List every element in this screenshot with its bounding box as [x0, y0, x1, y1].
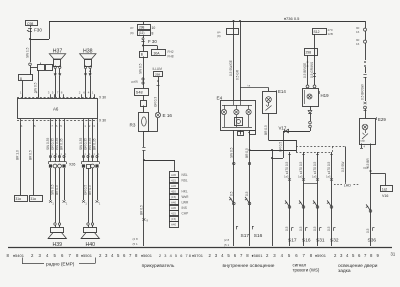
svg-text:8: 8	[7, 253, 10, 258]
svg-text:E4: E4	[217, 96, 223, 101]
svg-text:WS 0.35: WS 0.35	[88, 138, 92, 150]
svg-text:1: 1	[20, 91, 22, 95]
svg-text:0.5 SW/GE: 0.5 SW/GE	[229, 60, 233, 76]
svg-text:BR 1.0: BR 1.0	[16, 150, 20, 160]
svg-text:♦470 0.5: ♦470 0.5	[285, 162, 289, 174]
svg-text:8: 8	[246, 253, 249, 258]
svg-text:(15): (15)	[171, 217, 176, 221]
svg-text:2: 2	[99, 253, 102, 258]
svg-text:1: 1	[99, 202, 101, 206]
svg-text:шф: шф	[361, 139, 366, 143]
svg-text:1a5: 1a5	[284, 175, 289, 179]
svg-text:0.5 GR: 0.5 GR	[236, 69, 240, 80]
svg-text:5: 5	[227, 253, 230, 258]
svg-text:6: 6	[56, 124, 58, 128]
svg-text:4: 4	[346, 253, 349, 258]
svg-text:2: 2	[266, 253, 269, 258]
svg-text:SW 0.35: SW 0.35	[46, 138, 50, 150]
svg-text:1: 1	[89, 152, 91, 156]
svg-text:3: 3	[164, 254, 166, 258]
svg-text:SW 0.5: SW 0.5	[51, 184, 55, 195]
svg-text:S17: S17	[288, 238, 297, 244]
svg-text:♦470 0.5: ♦470 0.5	[299, 162, 303, 174]
svg-text:GR 0.3: GR 0.3	[154, 97, 158, 107]
svg-text:(2 8: (2 8	[224, 238, 230, 242]
svg-text:2: 2	[31, 253, 34, 258]
svg-text:BR 0.5: BR 0.5	[55, 185, 59, 195]
svg-text:BR 0.35: BR 0.35	[93, 138, 97, 150]
svg-text:◄: ◄	[26, 29, 29, 33]
svg-text:(9): (9)	[217, 34, 221, 38]
svg-text:6: 6	[234, 253, 237, 258]
svg-text:0.5: 0.5	[313, 226, 317, 231]
svg-text:7: 7	[303, 253, 306, 258]
svg-text:V17: V17	[279, 126, 287, 131]
svg-text:CHP: CHP	[182, 212, 189, 216]
svg-text:(2 8: (2 8	[133, 237, 139, 241]
svg-text:LWR: LWR	[182, 201, 190, 205]
svg-text:31a: 31a	[16, 197, 22, 201]
svg-text:♦470 0.5: ♦470 0.5	[327, 162, 331, 174]
svg-text:2: 2	[79, 91, 81, 95]
svg-text:8: 8	[34, 124, 36, 128]
svg-text:6: 6	[295, 253, 298, 258]
svg-text:30A: 30A	[154, 51, 161, 55]
svg-text:SW 1.5: SW 1.5	[26, 47, 30, 58]
svg-text:♦736 0.5: ♦736 0.5	[284, 16, 300, 21]
svg-text:8: 8	[147, 219, 149, 223]
svg-text:415: 415	[171, 178, 176, 182]
svg-text:♦5401: ♦5401	[13, 253, 25, 258]
svg-text:16: 16	[356, 30, 360, 34]
svg-text:до: до	[130, 26, 134, 30]
svg-text:8: 8	[152, 31, 154, 35]
svg-text:4: 4	[364, 145, 366, 149]
svg-text:(5 1: (5 1	[224, 243, 230, 247]
svg-text:♦5901: ♦5901	[315, 253, 327, 258]
svg-text:V16: V16	[382, 194, 388, 198]
svg-text:3: 3	[215, 253, 218, 258]
svg-text:7: 7	[57, 91, 59, 95]
svg-text:♦5801: ♦5801	[252, 253, 264, 258]
svg-text:(11): (11)	[139, 31, 144, 35]
svg-text:31: 31	[391, 252, 396, 257]
svg-text:2: 2	[209, 253, 212, 258]
svg-text:1: 1	[66, 202, 68, 206]
svg-text:6: 6	[83, 91, 85, 95]
svg-text:1: 1	[65, 152, 67, 156]
svg-text:A40: A40	[171, 200, 177, 204]
svg-text:2: 2	[334, 253, 337, 258]
svg-text:5: 5	[352, 253, 355, 258]
svg-text:A6: A6	[53, 107, 59, 112]
svg-text:3: 3	[105, 253, 108, 258]
svg-text:X26: X26	[69, 163, 75, 167]
svg-text:0.5 BR/GE: 0.5 BR/GE	[303, 63, 307, 78]
svg-text:♦5701: ♦5701	[192, 253, 204, 258]
svg-text:(15): (15)	[171, 195, 176, 199]
svg-text:S17: S17	[241, 233, 250, 239]
svg-text:GR 0.5: GR 0.5	[279, 142, 283, 152]
svg-text:0.5: 0.5	[229, 191, 233, 196]
svg-text:450: 450	[171, 189, 176, 193]
svg-text:0.5: 0.5	[299, 226, 303, 231]
svg-text:тревоги (WS): тревоги (WS)	[293, 267, 320, 272]
svg-text:4: 4	[170, 254, 172, 258]
svg-text:5: 5	[54, 253, 57, 258]
svg-text:5: 5	[175, 254, 177, 258]
svg-text:INS: INS	[182, 206, 187, 210]
svg-text:7: 7	[129, 253, 132, 258]
svg-text:S31: S31	[316, 238, 325, 244]
svg-text:8: 8	[310, 253, 313, 258]
svg-text:C98: C98	[27, 22, 33, 26]
svg-text:1: 1	[85, 202, 87, 206]
svg-text:A30: A30	[171, 173, 177, 177]
svg-text:задка: задка	[338, 269, 351, 274]
svg-text:GR 0.5: GR 0.5	[84, 185, 88, 195]
svg-text:12B: 12B	[328, 32, 333, 36]
svg-text:V18: V18	[363, 166, 369, 170]
svg-text:0.5: 0.5	[245, 191, 249, 196]
svg-text:SW 0.5: SW 0.5	[139, 63, 143, 74]
svg-text:7: 7	[364, 253, 367, 258]
svg-text:1: 1	[84, 152, 86, 156]
svg-text:S12: S12	[314, 30, 320, 34]
svg-text:8: 8	[20, 77, 22, 81]
svg-text:A40: A40	[171, 222, 177, 226]
svg-text:радио (ЕМР): радио (ЕМР)	[46, 261, 75, 267]
svg-text:♦470 0.5: ♦470 0.5	[313, 162, 317, 174]
svg-text:E 16: E 16	[163, 113, 173, 118]
svg-text:7: 7	[69, 253, 72, 258]
svg-text:S36: S36	[368, 238, 377, 244]
svg-text:X 30: X 30	[99, 96, 106, 100]
svg-text:прикуриватель: прикуриватель	[142, 264, 175, 269]
svg-text:E29: E29	[378, 117, 386, 122]
svg-text:298: 298	[306, 51, 312, 55]
svg-text:ILLUM: ILLUM	[153, 67, 163, 71]
svg-text:♦5501: ♦5501	[81, 253, 93, 258]
svg-text:31a: 31a	[31, 197, 37, 201]
svg-text:5: 5	[60, 124, 62, 128]
svg-text:6: 6	[180, 254, 182, 258]
svg-text:5: 5	[288, 253, 291, 258]
svg-text:(9): (9)	[130, 31, 134, 35]
svg-text:E14: E14	[278, 89, 286, 94]
svg-text:S16: S16	[302, 238, 311, 244]
svg-text:0.5 SW: 0.5 SW	[341, 162, 345, 172]
svg-text:4: 4	[281, 253, 284, 258]
svg-text:F 30: F 30	[148, 39, 157, 44]
svg-text:3: 3	[93, 124, 95, 128]
svg-text:WsR: WsR	[182, 195, 190, 199]
svg-text:внутреннее освещение: внутреннее освещение	[223, 264, 275, 269]
svg-text:4: 4	[111, 253, 114, 258]
svg-text:H19: H19	[321, 93, 330, 98]
svg-text:(5 1: (5 1	[133, 242, 139, 246]
svg-text:0.5: 0.5	[366, 228, 370, 233]
svg-text:3: 3	[273, 253, 276, 258]
svg-text:1: 1	[84, 124, 86, 128]
svg-text:3: 3	[48, 91, 50, 95]
svg-text:LHD: LHD	[344, 184, 352, 188]
svg-text:8: 8	[189, 254, 191, 258]
svg-text:S48: S48	[136, 91, 143, 95]
svg-text:BR 0.5: BR 0.5	[140, 205, 144, 215]
svg-text:SW 0.5: SW 0.5	[229, 147, 233, 158]
svg-text:1a5: 1a5	[312, 175, 317, 179]
svg-text:R3: R3	[130, 123, 136, 128]
svg-text:415: 415	[171, 211, 176, 215]
svg-text:WS 0.35: WS 0.35	[55, 138, 59, 150]
svg-text:X 30: X 30	[99, 119, 106, 123]
svg-text:1a5: 1a5	[298, 175, 303, 179]
svg-text:3: 3	[340, 253, 343, 258]
svg-text:9: 9	[377, 253, 380, 258]
svg-text:1: 1	[60, 152, 62, 156]
svg-text:7: 7	[51, 124, 53, 128]
svg-text:4: 4	[88, 91, 90, 95]
svg-text:♦5601: ♦5601	[141, 253, 153, 258]
svg-text:BR 0.5: BR 0.5	[245, 148, 249, 158]
svg-text:BR 0.5: BR 0.5	[264, 125, 268, 135]
svg-text:GR 0.35: GR 0.35	[51, 138, 55, 150]
svg-text:6: 6	[61, 253, 64, 258]
svg-text:NSL: NSL	[182, 173, 188, 177]
svg-text:1: 1	[56, 152, 58, 156]
svg-text:↑а: ↑а	[247, 84, 251, 88]
svg-text:5: 5	[52, 91, 54, 95]
svg-text:GR 0.35: GR 0.35	[84, 138, 88, 150]
svg-text:1: 1	[93, 152, 95, 156]
svg-text:2: 2	[159, 254, 161, 258]
svg-text:1a5: 1a5	[326, 175, 331, 179]
svg-text:BR 0.35: BR 0.35	[60, 138, 64, 150]
svg-text:B: B	[141, 52, 143, 56]
svg-text:16: 16	[356, 42, 360, 46]
svg-text:8: 8	[370, 253, 373, 258]
svg-text:1: 1	[52, 202, 54, 206]
svg-text:8: 8	[135, 253, 138, 258]
svg-text:4: 4	[221, 253, 224, 258]
svg-text:6: 6	[123, 253, 126, 258]
svg-text:SW 0.35: SW 0.35	[79, 138, 83, 150]
svg-text:HKL: HKL	[182, 190, 188, 194]
svg-text:F30: F30	[34, 28, 42, 33]
svg-text:3: 3	[39, 253, 42, 258]
svg-text:0.5: 0.5	[327, 226, 331, 231]
svg-text:298: 298	[139, 26, 145, 30]
svg-text:4: 4	[21, 124, 23, 128]
svg-text:8: 8	[76, 253, 79, 258]
svg-text:2: 2	[89, 124, 91, 128]
svg-text:7: 7	[186, 254, 188, 258]
svg-text:0.5: 0.5	[285, 226, 289, 231]
svg-text:FH8: FH8	[168, 55, 174, 59]
svg-text:0.5 BR/SW: 0.5 BR/SW	[361, 84, 365, 100]
svg-text:FH2: FH2	[168, 50, 174, 54]
svg-text:BR 0.5: BR 0.5	[88, 185, 92, 195]
svg-text:A36: A36	[171, 184, 177, 188]
svg-text:7: 7	[240, 253, 243, 258]
svg-text:5: 5	[117, 253, 120, 258]
svg-text:10: 10	[152, 26, 156, 30]
svg-text:S32: S32	[330, 238, 339, 244]
svg-text:0.5 GR/WS: 0.5 GR/WS	[310, 62, 314, 78]
svg-text:1a2: 1a2	[382, 188, 388, 192]
svg-text:6: 6	[358, 253, 361, 258]
svg-text:1: 1	[98, 152, 100, 156]
svg-text:1: 1	[92, 91, 94, 95]
svg-text:S16: S16	[254, 233, 263, 239]
svg-text:4: 4	[46, 253, 49, 258]
svg-text:NSL: NSL	[182, 179, 188, 183]
svg-text:BR 0.5: BR 0.5	[29, 150, 33, 160]
svg-text:до(8): до(8)	[131, 80, 138, 84]
svg-text:1: 1	[51, 152, 53, 156]
svg-text:298: 298	[155, 73, 160, 77]
svg-text:8: 8	[61, 91, 63, 95]
svg-text:A30: A30	[171, 206, 177, 210]
